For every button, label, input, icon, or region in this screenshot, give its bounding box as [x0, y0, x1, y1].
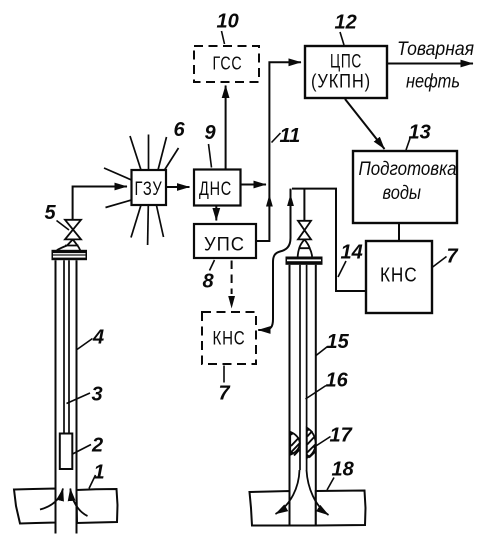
valve 5 (left wellhead)	[65, 220, 81, 240]
svg-text:18: 18	[332, 459, 355, 481]
node 15 label	[316, 331, 350, 356]
wire: left well to GZU	[73, 187, 127, 220]
CPS box	[305, 46, 387, 98]
svg-text:КНС: КНС	[380, 265, 418, 287]
svg-text:ГСС: ГСС	[213, 54, 243, 74]
wire: UPS riser + line 11 to CPS	[256, 62, 301, 241]
junction up arrow	[266, 195, 273, 207]
node 10 label	[217, 11, 239, 45]
node 4 label	[77, 327, 104, 350]
wire: DNS to GSS (gas)	[225, 86, 227, 170]
svg-text:6: 6	[174, 119, 186, 141]
node 3 label	[67, 384, 103, 406]
svg-text:нефть: нефть	[406, 72, 460, 93]
formation 18 (right block)	[316, 491, 366, 526]
wire: GZU to DNS	[166, 186, 190, 188]
tubing 3 (left well)	[64, 260, 69, 433]
node 1 label	[89, 462, 105, 489]
node 16 label	[306, 370, 349, 400]
tubing 16 (injection well)	[300, 265, 307, 470]
GZU rays (wells cluster 6)	[104, 135, 179, 246]
annulus line with up arrow, to dashed KNS	[258, 189, 290, 330]
node 5 label	[45, 202, 70, 230]
svg-text:17: 17	[330, 425, 353, 447]
formation 1 (left block)	[14, 489, 56, 524]
node 2 label	[73, 435, 104, 457]
formation 1 (right block)	[77, 489, 118, 523]
svg-text:воды: воды	[383, 183, 422, 204]
svg-text:5: 5	[45, 202, 57, 224]
casing 15 (injection well)	[290, 265, 316, 526]
outflow arrow (left)	[276, 470, 300, 514]
svg-text:14: 14	[341, 242, 363, 264]
node 11 label	[272, 125, 301, 147]
pump 2	[60, 434, 73, 470]
valve (injection wellhead)	[298, 221, 311, 240]
svg-text:8: 8	[203, 271, 215, 293]
wire 14: KNS to injection wellhead	[292, 189, 366, 291]
dashed arrow UPS to dashed KNS	[231, 261, 233, 295]
svg-text:7: 7	[447, 246, 459, 268]
GSS dashed box	[194, 46, 259, 82]
packer 17	[290, 428, 315, 458]
svg-text:(УКПН): (УКПН)	[311, 72, 371, 93]
node 18 label	[327, 459, 355, 491]
UPS box	[194, 224, 256, 258]
node 9 label	[205, 122, 217, 168]
wire: tovarnaya neft arrow	[388, 63, 473, 65]
svg-text:7: 7	[219, 383, 231, 405]
svg-text:9: 9	[205, 122, 217, 144]
svg-text:ГЗУ: ГЗУ	[135, 179, 163, 200]
inflow arrow (right)	[70, 489, 87, 517]
svg-text:4: 4	[92, 327, 104, 349]
outflow arrow (right)	[307, 470, 329, 515]
bottom line under injection well	[290, 525, 316, 527]
casing 4 (left well)	[56, 260, 77, 533]
inflow arrow (left)	[40, 489, 63, 510]
wire: DNS to UPS	[215, 206, 217, 221]
svg-text:Товарная: Товарная	[397, 39, 474, 60]
GZU box	[132, 170, 167, 205]
svg-text:11: 11	[280, 125, 301, 147]
node 7 label (right)	[432, 246, 459, 268]
wellhead cone (injection)	[298, 239, 312, 256]
up arrow on annulus line	[287, 194, 294, 206]
svg-text:15: 15	[327, 331, 350, 353]
node 14 label	[338, 242, 363, 278]
injection valve stem	[303, 189, 305, 221]
svg-text:12: 12	[335, 12, 357, 34]
node 8 label	[203, 260, 215, 293]
wellhead cone (left)	[57, 239, 80, 250]
KNS box (solid)	[366, 241, 432, 313]
svg-text:ДНС: ДНС	[199, 179, 232, 200]
node 12 label	[335, 12, 357, 46]
node 7 label (dashed KNS)	[219, 366, 231, 405]
node 17 label	[314, 425, 353, 448]
svg-text:КНС: КНС	[213, 329, 246, 350]
node 13 label	[406, 122, 431, 151]
wire: DNS to line 11	[241, 184, 267, 186]
svg-text:УПС: УПС	[204, 235, 245, 256]
svg-text:2: 2	[91, 435, 103, 457]
svg-text:16: 16	[326, 370, 349, 392]
wellhead flange (left)	[52, 250, 88, 260]
svg-text:13: 13	[409, 122, 431, 144]
svg-text:1: 1	[94, 462, 105, 484]
svg-text:3: 3	[92, 384, 103, 406]
wire: water treatment to KNS	[398, 223, 400, 241]
svg-text:ЦПС: ЦПС	[330, 52, 362, 73]
DNS box	[194, 170, 241, 206]
svg-text:Подготовка: Подготовка	[359, 159, 457, 180]
formation 18 (left block)	[250, 491, 290, 526]
wire: CPS to water treatment	[345, 99, 385, 149]
svg-text:10: 10	[217, 11, 239, 33]
KNS dashed box	[202, 312, 256, 364]
water treatment box 13	[353, 151, 457, 223]
wellhead flange (injection)	[286, 257, 323, 265]
